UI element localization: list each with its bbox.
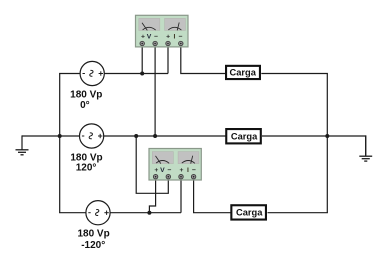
svg-text:0°: 0° [80,100,90,111]
junction dot (phase B / XWM1 V-) [153,134,157,138]
load Carga2 [226,129,261,143]
wire B1 (bus to V2) [59,135,79,137]
source V1 [80,61,104,85]
svg-text:Carga: Carga [236,208,263,218]
terminal XWM1 2 [153,41,157,45]
junction dot (phase C / XWM2 V+) [147,211,151,215]
load Carga1 [226,66,260,79]
svg-text:+: + [180,167,184,174]
junction dot (left bus / ground / V2) [58,134,62,138]
wire B3 (Carga2 to right bus and right ground tap) [262,136,366,155]
terminal XWM2 1 [153,175,157,179]
junction dot (phase A / XWM1 V+) [140,72,144,76]
left bus wire [59,74,61,213]
wire A3 (wattmeter I- to Carga1) [181,46,226,74]
svg-text:−: − [168,167,172,174]
wire B2 (V2 to Carga2) [104,135,226,137]
svg-text:I: I [174,34,176,41]
wire A1 (bus to V1) [59,73,80,75]
terminal XWM2 2 [166,175,170,179]
junction dot (phase B / right bus) [325,134,329,138]
wire B0 (left ground tap) [22,135,60,137]
junction dot (phase B / XWM2 V-) [134,134,138,138]
svg-text:I: I [187,167,189,174]
wire XWM1 V- stub (down to phase B) [154,46,156,136]
svg-text:−: − [179,34,183,41]
svg-text:-120°: -120° [81,240,105,251]
source V3 [86,201,110,225]
wire A4 (Carga1 to right bus) [261,73,328,75]
ground right [359,135,372,161]
terminal XWM2 3 [179,175,183,179]
wattmeter XWM1 [136,15,189,47]
svg-text:+: + [166,34,170,41]
wire A2 (V1 to wattmeter I+) [104,73,168,75]
wire XWM1 I+ stub [167,46,169,74]
wattmeter XWM2 [149,149,201,181]
wire C0 (bus to V3) [59,212,86,214]
wire XWM1 V+ stub [141,46,143,74]
wire C2 (Carga3 to right bus) [268,212,328,214]
right bus wire [326,74,328,213]
terminal XWM2 4 [191,175,195,179]
terminal XWM1 4 [179,41,183,45]
terminal XWM1 3 [166,41,170,45]
ground left [16,135,29,154]
svg-text:Carga: Carga [231,131,258,141]
wire XWM2 V- path (left and up to phase B) [136,136,168,193]
wire C1 (V3 to wattmeter2 I+) [110,212,181,214]
wire XWM2 V+ path (jog to phase C) [149,179,155,213]
load Carga3 [231,205,266,219]
svg-text:−: − [154,34,158,41]
wire XWM2 I- path (to Carga3) [194,179,231,213]
svg-text:+: + [141,34,145,41]
svg-text:120°: 120° [76,163,97,174]
svg-text:180 Vp: 180 Vp [77,229,109,240]
svg-text:−: − [192,167,196,174]
svg-text:+: + [154,167,158,174]
wire XWM2 I+ stub [180,179,182,213]
svg-text:V: V [147,34,152,41]
svg-text:V: V [160,167,165,174]
svg-text:180 Vp: 180 Vp [70,89,102,100]
svg-text:Carga: Carga [230,67,257,77]
terminal XWM1 1 [140,41,144,45]
source V2 [80,124,104,148]
